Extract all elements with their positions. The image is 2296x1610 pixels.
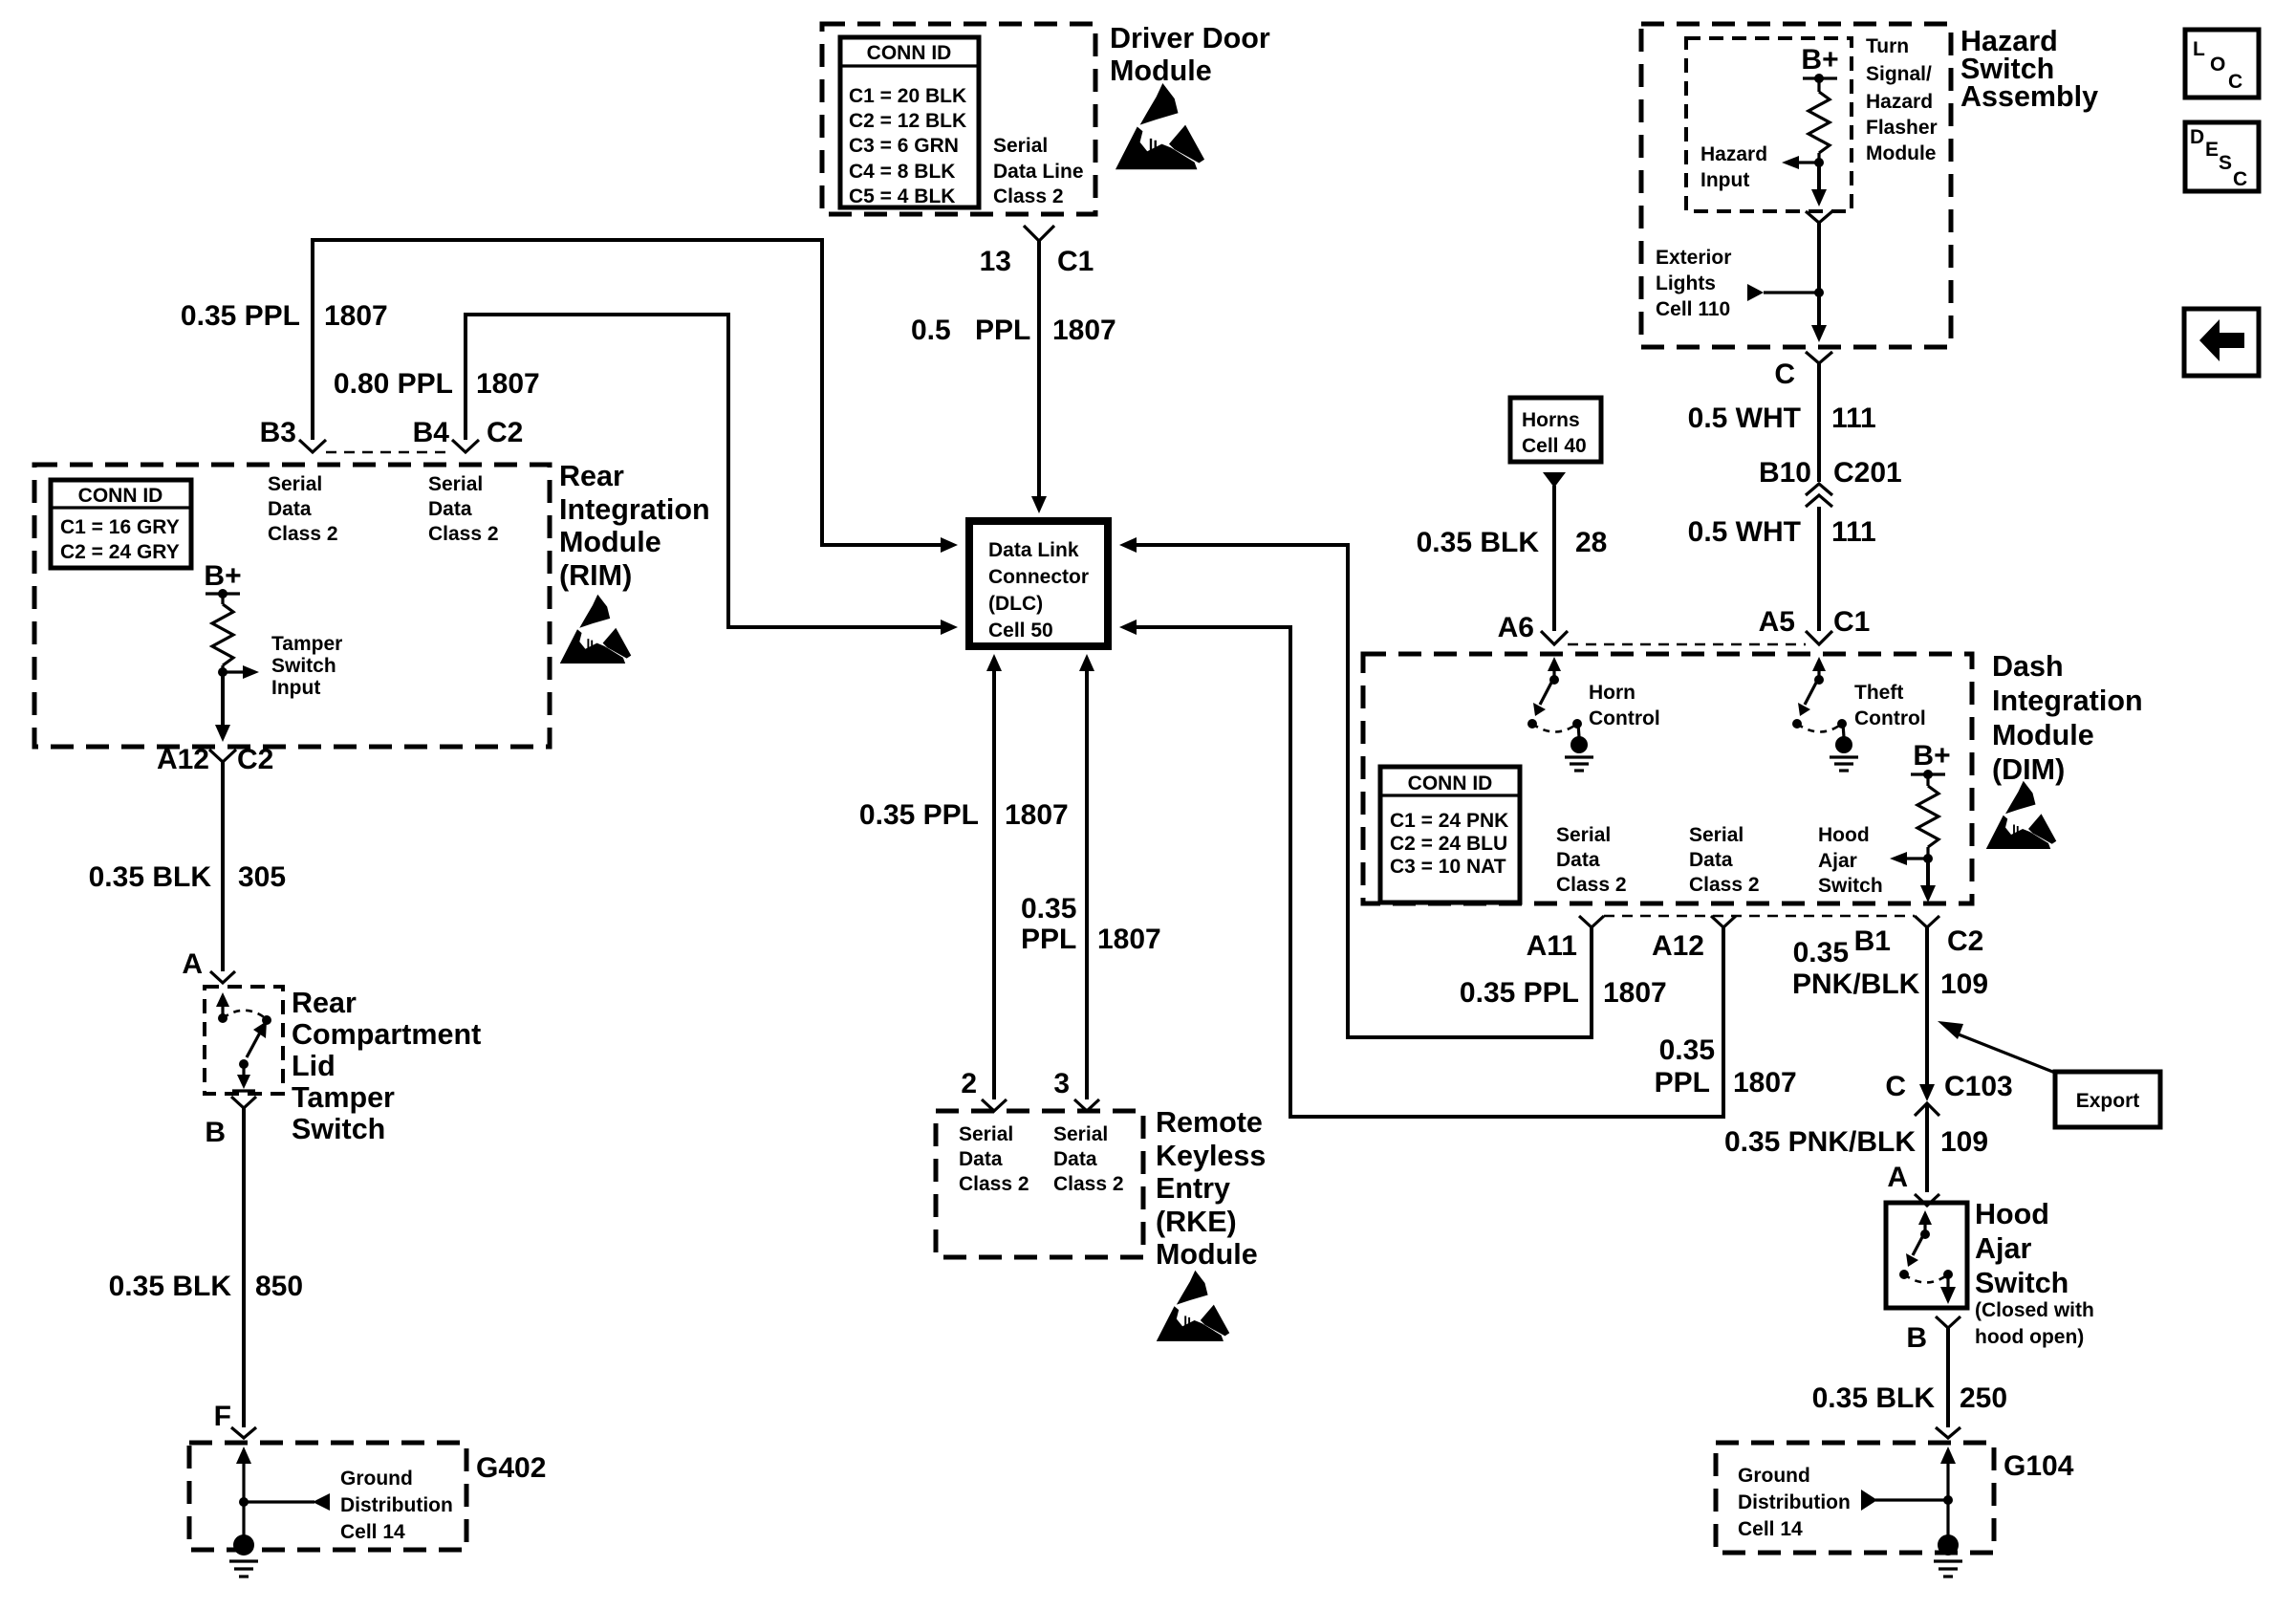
- off-page triangle below Horns box: [1543, 472, 1566, 488]
- CONN ID table (Driver Door Module): [840, 37, 979, 207]
- wire value label 0.35 PPL 1807 (RKE pin3): [1021, 893, 1161, 955]
- svg-text:Serial: Serial: [1556, 824, 1611, 846]
- svg-text:0.35 PPL: 0.35 PPL: [1460, 977, 1579, 1009]
- svg-text:CONN ID: CONN ID: [1408, 772, 1493, 794]
- svg-text:Switch: Switch: [1975, 1267, 2069, 1299]
- svg-text:Serial: Serial: [959, 1123, 1013, 1145]
- svg-text:13: 13: [980, 246, 1011, 277]
- svg-text:Serial: Serial: [268, 473, 322, 495]
- module U1 Driver Door Module dashed box: [822, 24, 1095, 214]
- svg-text:CONN ID: CONN ID: [867, 42, 952, 64]
- svg-text:Serial: Serial: [428, 473, 483, 495]
- switch S1 internals: [216, 992, 271, 1091]
- Export callout arrow to wire 109: [1938, 1021, 2055, 1073]
- net label Serial Data Line Class 2 (DDM): [993, 135, 1084, 207]
- ESD symbol (DDM): [1116, 83, 1204, 169]
- svg-text:B1: B1: [1854, 925, 1891, 957]
- svg-text:B3: B3: [260, 417, 296, 448]
- arrow to Tamper Switch Input: [223, 665, 259, 679]
- wire flasher output down: [1817, 163, 1821, 191]
- label Rear Integration Module (RIM): [559, 460, 710, 592]
- wire DIM A12 to DLC right lower: [1137, 627, 1723, 1117]
- wire hazard C to C201 (0.5 WHT 111): [1817, 363, 1821, 482]
- svg-text:Switch: Switch: [292, 1113, 385, 1145]
- svg-text:1807: 1807: [476, 368, 540, 400]
- wire value label 0.35 BLK 305: [89, 861, 286, 893]
- svg-text:(DIM): (DIM): [1992, 753, 2065, 786]
- node junction (exterior lights tap): [1814, 288, 1824, 297]
- svg-text:Class 2: Class 2: [1053, 1173, 1124, 1195]
- svg-text:C: C: [2228, 71, 2242, 93]
- wire value label 0.35 BLK 28: [1417, 527, 1608, 558]
- svg-text:Compartment: Compartment: [292, 1018, 481, 1051]
- svg-text:Horns: Horns: [1522, 409, 1580, 431]
- connector C201 double chevron: [1806, 484, 1832, 507]
- svg-text:Tamper: Tamper: [292, 1081, 395, 1114]
- arrowhead into DLC right upper: [1119, 537, 1137, 553]
- svg-text:Distribution: Distribution: [1738, 1491, 1851, 1513]
- label Tamper Switch Input: [271, 633, 342, 699]
- svg-text:Connector: Connector: [988, 566, 1089, 588]
- wire value label 0.35 BLK 850: [109, 1271, 303, 1302]
- svg-text:Data: Data: [1556, 849, 1600, 871]
- thin connector line along DIM bottom pins: [1604, 915, 1915, 917]
- connector chevron pin C (hazard assembly): [1806, 352, 1832, 363]
- svg-text:PNK/BLK: PNK/BLK: [1792, 968, 1920, 1000]
- connector chevron F (G402): [231, 1427, 256, 1438]
- wire value label 0.5 WHT 111 (lower): [1688, 516, 1876, 548]
- module DIM Dash Integration Module dashed box: [1363, 654, 1972, 903]
- svg-text:Lights: Lights: [1656, 272, 1716, 294]
- wire RIM B3 to DLC (0.35 PPL 1807): [313, 240, 941, 545]
- svg-text:Horn: Horn: [1589, 682, 1635, 704]
- svg-text:Hazard: Hazard: [1700, 143, 1767, 165]
- svg-text:(DLC): (DLC): [988, 593, 1043, 615]
- label Ground Distribution Cell 14 (G402): [340, 1468, 453, 1543]
- svg-text:250: 250: [1960, 1382, 2007, 1414]
- connector chevron B (hood ajar switch): [1936, 1316, 1960, 1328]
- svg-text:D: D: [2190, 126, 2204, 148]
- label Rear Compartment Lid Tamper Switch: [292, 987, 481, 1145]
- label Theft Control: [1854, 682, 1926, 729]
- wire hazard switch to pin C: [1817, 293, 1821, 325]
- svg-text:Data Link: Data Link: [988, 539, 1079, 561]
- pin B3 connector chevron (RIM): [299, 440, 326, 452]
- svg-text:Module: Module: [1992, 719, 2094, 751]
- svg-text:3: 3: [1053, 1068, 1070, 1099]
- label Hood Ajar Switch: [1975, 1198, 2069, 1299]
- switch S1 Rear Compartment Lid Tamper Switch dashed box: [205, 987, 283, 1094]
- svg-text:C103: C103: [1944, 1071, 2013, 1102]
- svg-text:0.80 PPL: 0.80 PPL: [334, 368, 453, 400]
- module Hazard Switch Assembly outer dashed box: [1641, 24, 1951, 347]
- svg-text:(RIM): (RIM): [559, 559, 632, 592]
- pin 13 C1 connector chevron (DDM): [1024, 226, 1054, 241]
- svg-text:Cell 14: Cell 14: [340, 1521, 405, 1543]
- thin connector line between A6 and A5 chevrons: [1568, 643, 1806, 645]
- svg-text:1807: 1807: [324, 300, 388, 332]
- nav icon back-arrow box: [2184, 309, 2259, 376]
- pin A6 connector chevron (DIM): [1541, 631, 1568, 644]
- svg-text:0.35: 0.35: [1021, 893, 1076, 925]
- svg-text:Data: Data: [1689, 849, 1733, 871]
- wire DIM A11 to DLC right upper: [1137, 545, 1592, 1037]
- svg-text:C1: C1: [1057, 246, 1094, 277]
- svg-text:C5 = 4 BLK: C5 = 4 BLK: [849, 185, 955, 207]
- svg-text:28: 28: [1575, 527, 1607, 558]
- label Horn Control: [1589, 682, 1660, 729]
- node junction (RIM tamper): [218, 665, 227, 677]
- thin connector line between B3 and B4 chevrons: [326, 451, 452, 453]
- connector chevron (G104 entry): [1936, 1427, 1960, 1438]
- svg-text:C2 = 24 GRY: C2 = 24 GRY: [60, 541, 180, 563]
- svg-text:G104: G104: [2004, 1450, 2074, 1482]
- svg-text:A6: A6: [1498, 612, 1534, 643]
- svg-text:A12: A12: [1652, 930, 1704, 962]
- svg-text:C2: C2: [237, 744, 273, 775]
- svg-text:Data: Data: [268, 498, 312, 520]
- connector chevron A (tamper switch): [210, 971, 235, 983]
- svg-text:Entry: Entry: [1156, 1172, 1230, 1205]
- svg-text:E: E: [2205, 139, 2219, 161]
- svg-text:B4: B4: [413, 417, 450, 448]
- wire value label 0.35 BLK 250: [1812, 1382, 2007, 1414]
- svg-text:Flasher: Flasher: [1866, 117, 1938, 139]
- svg-text:111: 111: [1831, 516, 1876, 548]
- power symbol B+ (hazard flasher): [1801, 44, 1838, 83]
- svg-text:Switch: Switch: [1818, 875, 1883, 897]
- ground stud symbol (Horn Control): [1565, 736, 1593, 771]
- svg-text:Serial: Serial: [1053, 1123, 1108, 1145]
- label Remote Keyless Entry (RKE) Module: [1156, 1106, 1266, 1271]
- svg-text:Class 2: Class 2: [428, 523, 499, 545]
- svg-text:1807: 1807: [1097, 924, 1161, 955]
- svg-text:A12: A12: [157, 744, 209, 775]
- net label Serial Data Class 2 (DIM A12): [1689, 824, 1760, 896]
- svg-text:Serial: Serial: [993, 135, 1048, 157]
- wire value label 0.35 PPL 1807 (A12): [1655, 1034, 1797, 1099]
- wire C103 to hood ajar switch A (0.35 PNK/BLK 109): [1925, 1105, 1929, 1192]
- resistor (DIM hood ajar pull-up): [1917, 774, 1939, 847]
- svg-text:Switch: Switch: [271, 655, 336, 677]
- svg-text:A5: A5: [1759, 606, 1795, 638]
- svg-text:C2: C2: [1947, 925, 1983, 957]
- connector chevron B (tamper switch): [231, 1097, 256, 1108]
- svg-text:Rear: Rear: [292, 987, 357, 1019]
- svg-text:C1 = 16 GRY: C1 = 16 GRY: [60, 516, 180, 538]
- svg-text:B10: B10: [1759, 457, 1811, 489]
- svg-text:Module: Module: [559, 526, 661, 558]
- svg-text:305: 305: [238, 861, 286, 893]
- svg-text:0.35 PNK/BLK: 0.35 PNK/BLK: [1724, 1126, 1916, 1158]
- G104 internal wire and arrow: [1940, 1447, 1956, 1536]
- svg-text:Serial: Serial: [1689, 824, 1744, 846]
- svg-text:Signal/: Signal/: [1866, 63, 1932, 85]
- wire C201 to DIM A5 (0.5 WHT 111): [1817, 507, 1821, 631]
- svg-text:0.35 PPL: 0.35 PPL: [181, 300, 300, 332]
- svg-text:Ajar: Ajar: [1818, 850, 1857, 872]
- arrowhead into DLC left upper: [941, 537, 958, 553]
- arrowhead into DLC left lower: [941, 620, 958, 635]
- svg-text:0.35 BLK: 0.35 BLK: [89, 861, 212, 893]
- svg-text:C1 = 24 PNK: C1 = 24 PNK: [1390, 810, 1508, 832]
- nav icon DESC box: [2185, 122, 2259, 191]
- svg-text:(Closed with: (Closed with: [1975, 1299, 2094, 1321]
- pin A12 connector chevron (RIM bottom): [209, 750, 236, 762]
- svg-text:C: C: [2233, 168, 2247, 190]
- arrow to Hood Ajar Switch label: [1890, 852, 1928, 865]
- resistor (RIM tamper switch pull-up): [212, 594, 233, 665]
- off-page triangle to Ground Distribution (G402): [244, 1493, 330, 1511]
- ground stud symbol (Theft Control): [1830, 736, 1858, 771]
- label Ground Distribution Cell 14 (G104): [1738, 1465, 1851, 1540]
- wire value label 0.35 PPL 1807 (RKE pin2): [859, 799, 1069, 831]
- svg-text:PPL: PPL: [1021, 924, 1076, 955]
- arrowhead into DLC bottom left (from RKE pin2 wire): [986, 654, 1002, 671]
- wire A12 to tamper switch A (0.35 BLK 305): [221, 762, 225, 971]
- svg-text:B: B: [1906, 1322, 1927, 1354]
- wire RIM internal down to pin A12: [221, 672, 225, 725]
- net label Serial Data Class 2 (DIM A11): [1556, 824, 1627, 896]
- svg-text:Cell 50: Cell 50: [988, 620, 1053, 642]
- arrowhead into DLC right lower: [1119, 620, 1137, 635]
- wire Horns to DIM A6 (0.35 BLK 28): [1552, 486, 1556, 631]
- svg-text:111: 111: [1831, 402, 1876, 434]
- svg-text:0.35 BLK: 0.35 BLK: [1417, 527, 1540, 558]
- svg-text:850: 850: [255, 1271, 303, 1302]
- svg-text:Module: Module: [1110, 54, 1212, 87]
- off-page triangle to Ground Distribution (G104): [1861, 1490, 1948, 1511]
- svg-text:Distribution: Distribution: [340, 1494, 453, 1516]
- svg-text:109: 109: [1940, 1126, 1988, 1158]
- pin A12 connector chevron (DIM bottom): [1711, 916, 1736, 927]
- net label Serial Data Class 2 (RIM B3): [268, 473, 338, 545]
- ESD symbol (RKE): [1157, 1271, 1229, 1341]
- wire hazard switch internal: [1817, 223, 1821, 293]
- svg-text:Theft: Theft: [1854, 682, 1903, 704]
- off-page triangle to Exterior Lights (points right into wire): [1747, 284, 1819, 301]
- svg-text:Turn: Turn: [1866, 35, 1909, 57]
- svg-text:Data Line: Data Line: [993, 161, 1084, 183]
- svg-text:C1 = 20 BLK: C1 = 20 BLK: [849, 85, 966, 107]
- wire hood ajar B to G104 (0.35 BLK 250): [1946, 1328, 1950, 1427]
- connector chevron A (hood ajar switch): [1915, 1194, 1939, 1206]
- svg-text:0.5: 0.5: [911, 315, 951, 346]
- switch Horn Control (DIM internal): [1527, 657, 1582, 737]
- pin A5 connector chevron (DIM): [1806, 631, 1832, 644]
- svg-text:O: O: [2210, 54, 2225, 76]
- svg-text:Class 2: Class 2: [1689, 874, 1760, 896]
- net label Serial Data Class 2 (RIM B4): [428, 473, 499, 545]
- svg-text:B+: B+: [204, 560, 241, 592]
- svg-text:2: 2: [961, 1068, 977, 1099]
- switch Theft Control (DIM internal): [1792, 657, 1847, 737]
- svg-text:Class 2: Class 2: [993, 185, 1064, 207]
- label Turn Signal/Hazard Flasher Module: [1866, 35, 1938, 164]
- wire value label 0.35 PNK/BLK 109 (lower): [1724, 1126, 1988, 1158]
- net label Serial Data Class 2 (RKE pin3): [1053, 1123, 1124, 1195]
- svg-text:1807: 1807: [1603, 977, 1667, 1009]
- svg-text:L: L: [2193, 38, 2205, 60]
- svg-text:Keyless: Keyless: [1156, 1140, 1266, 1172]
- label (Closed with hood open): [1975, 1299, 2094, 1348]
- label Driver Door Module: [1110, 22, 1270, 87]
- svg-text:Integration: Integration: [559, 493, 710, 526]
- module RIM Rear Integration Module dashed box: [34, 465, 550, 747]
- module RKE Remote Keyless Entry dashed box: [936, 1111, 1143, 1257]
- svg-text:C201: C201: [1833, 457, 1902, 489]
- svg-text:Cell 40: Cell 40: [1522, 435, 1587, 457]
- wire tamper switch B to G402 (0.35 BLK 850): [242, 1108, 246, 1427]
- svg-text:C2: C2: [487, 417, 523, 448]
- svg-text:0.35 BLK: 0.35 BLK: [109, 1271, 232, 1302]
- svg-text:Integration: Integration: [1992, 685, 2143, 717]
- net label Serial Data Class 2 (RKE pin2): [959, 1123, 1029, 1195]
- svg-text:Dash: Dash: [1992, 650, 2064, 683]
- svg-text:Class 2: Class 2: [268, 523, 338, 545]
- svg-text:Cell 14: Cell 14: [1738, 1518, 1803, 1540]
- pin B1 connector chevron (DIM bottom): [1915, 916, 1939, 927]
- wire DIM B1 internal down: [1926, 859, 1930, 887]
- svg-text:Class 2: Class 2: [1556, 874, 1627, 896]
- svg-text:0.35 PPL: 0.35 PPL: [859, 799, 979, 831]
- svg-text:Data: Data: [428, 498, 472, 520]
- svg-text:0.5 WHT: 0.5 WHT: [1688, 402, 1801, 434]
- svg-text:G402: G402: [476, 1452, 546, 1484]
- wire DIM B1 to C103 (0.35 PNK/BLK 109): [1925, 927, 1929, 1086]
- module Horns Cell 40 reference box: [1510, 398, 1601, 462]
- svg-text:A11: A11: [1527, 930, 1577, 962]
- node junction (hazard input): [1814, 153, 1824, 167]
- resistor (hazard flasher): [1809, 78, 1830, 153]
- pin B4 connector chevron (RIM): [452, 440, 479, 452]
- svg-text:Export: Export: [2076, 1090, 2140, 1112]
- pin 2 connector chevron (RKE): [982, 1099, 1007, 1111]
- connector chevron flasher to switch: [1806, 211, 1832, 223]
- svg-text:1807: 1807: [1733, 1067, 1797, 1099]
- module DLC Data Link Connector box: [969, 521, 1108, 646]
- wire value label 0.35 PNK/BLK 109 (upper): [1792, 937, 1988, 1000]
- wire RKE pin2 to DLC (0.35 PPL 1807): [992, 671, 996, 1099]
- label Exterior Lights Cell 110: [1656, 247, 1731, 320]
- svg-text:B: B: [205, 1117, 226, 1148]
- svg-text:C: C: [1774, 359, 1795, 390]
- svg-text:Data: Data: [959, 1148, 1003, 1170]
- svg-text:C2 = 12 BLK: C2 = 12 BLK: [849, 110, 966, 132]
- svg-text:Rear: Rear: [559, 460, 624, 492]
- svg-text:0.5 WHT: 0.5 WHT: [1688, 516, 1801, 548]
- svg-text:Remote: Remote: [1156, 1106, 1263, 1139]
- svg-text:A: A: [1887, 1162, 1908, 1193]
- svg-text:B+: B+: [1913, 740, 1950, 772]
- Export callout box: [2055, 1072, 2160, 1127]
- wire value label 0.5 WHT 111 (upper): [1688, 402, 1876, 434]
- svg-text:Driver Door: Driver Door: [1110, 22, 1270, 54]
- switch S2 internals: [1899, 1210, 1956, 1304]
- svg-text:A: A: [182, 948, 203, 980]
- wire RKE pin3 to DLC (0.35 PPL 1807): [1085, 671, 1089, 1099]
- wire DDM pin13 to DLC top: [1037, 241, 1041, 498]
- label Dash Integration Module (DIM): [1992, 650, 2143, 786]
- svg-text:Hood: Hood: [1818, 824, 1870, 846]
- svg-text:Module: Module: [1156, 1238, 1258, 1271]
- connector C103 chevron: [1915, 1103, 1939, 1116]
- ground symbol (G402): [229, 1534, 258, 1577]
- svg-text:F: F: [214, 1401, 231, 1432]
- wire value label 0.80 PPL 1807 (B4): [334, 368, 540, 400]
- G402 internal wire and arrow: [236, 1447, 251, 1536]
- svg-text:C2 = 24 BLU: C2 = 24 BLU: [1390, 833, 1507, 855]
- wire value label 0.35 PPL 1807 (A11): [1460, 977, 1667, 1009]
- wire RIM B4 to DLC (0.80 PPL 1807): [466, 315, 941, 627]
- node junction (hood ajar input): [1923, 847, 1933, 863]
- svg-text:PPL: PPL: [1655, 1067, 1710, 1099]
- wire value label 0.35 PPL 1807 (B3): [181, 300, 388, 332]
- svg-text:Input: Input: [271, 677, 320, 699]
- pin A11 connector chevron (DIM bottom): [1579, 916, 1604, 927]
- svg-text:109: 109: [1940, 968, 1988, 1000]
- ESD symbol (DIM): [1986, 781, 2057, 849]
- svg-text:Ground: Ground: [340, 1468, 413, 1490]
- ground G402 dashed box: [189, 1443, 466, 1550]
- CONN ID table (DIM): [1380, 767, 1520, 903]
- svg-text:Ground: Ground: [1738, 1465, 1810, 1487]
- svg-text:Ajar: Ajar: [1975, 1232, 2031, 1265]
- label Hood Ajar Switch (DIM internal): [1818, 824, 1883, 897]
- svg-text:C: C: [1885, 1071, 1906, 1102]
- svg-text:0.35: 0.35: [1659, 1034, 1715, 1066]
- switch S2 Hood Ajar Switch box: [1886, 1203, 1967, 1308]
- module Turn Signal/Hazard Flasher Module inner dashed box: [1686, 38, 1852, 211]
- svg-text:Class 2: Class 2: [959, 1173, 1029, 1195]
- wire value label 0.5 PPL 1807: [911, 315, 1116, 346]
- power symbol B+ (DIM hood ajar): [1911, 740, 1951, 779]
- pin 3 connector chevron (RKE): [1074, 1099, 1099, 1111]
- label Hazard Input: [1700, 143, 1767, 191]
- svg-text:Hood: Hood: [1975, 1198, 2049, 1230]
- nav icon LOC box: [2185, 30, 2259, 98]
- CONN ID table (RIM): [51, 480, 191, 568]
- svg-text:Assembly: Assembly: [1960, 80, 2098, 113]
- svg-text:Lid: Lid: [292, 1050, 336, 1082]
- svg-text:B+: B+: [1801, 44, 1838, 76]
- svg-text:Tamper: Tamper: [271, 633, 342, 655]
- svg-text:0.35 BLK: 0.35 BLK: [1812, 1382, 1936, 1414]
- svg-text:hood open): hood open): [1975, 1326, 2084, 1348]
- arrow to Hazard Input: [1782, 156, 1819, 169]
- ground symbol (G104): [1934, 1534, 1962, 1577]
- svg-text:Cell 110: Cell 110: [1656, 298, 1730, 320]
- svg-text:C3 = 6 GRN: C3 = 6 GRN: [849, 135, 959, 157]
- svg-text:Hazard: Hazard: [1866, 91, 1933, 113]
- label Hazard Switch Assembly: [1960, 25, 2098, 113]
- svg-text:S: S: [2219, 152, 2232, 174]
- svg-text:1807: 1807: [1005, 799, 1069, 831]
- svg-text:C3 = 10 NAT: C3 = 10 NAT: [1390, 856, 1506, 878]
- svg-text:Module: Module: [1866, 142, 1937, 164]
- arrowhead into DLC bottom right (from RKE pin3 wire): [1079, 654, 1094, 671]
- svg-text:C4 = 8 BLK: C4 = 8 BLK: [849, 161, 955, 183]
- ESD symbol (RIM): [560, 595, 631, 664]
- svg-text:(RKE): (RKE): [1156, 1206, 1237, 1238]
- power symbol B+ (RIM): [204, 560, 241, 598]
- ground G104 dashed box: [1716, 1443, 1994, 1553]
- svg-text:Exterior: Exterior: [1656, 247, 1731, 269]
- svg-text:Control: Control: [1589, 707, 1660, 729]
- svg-text:Input: Input: [1700, 169, 1749, 191]
- svg-text:0.35: 0.35: [1793, 937, 1849, 968]
- svg-text:C1: C1: [1833, 606, 1870, 638]
